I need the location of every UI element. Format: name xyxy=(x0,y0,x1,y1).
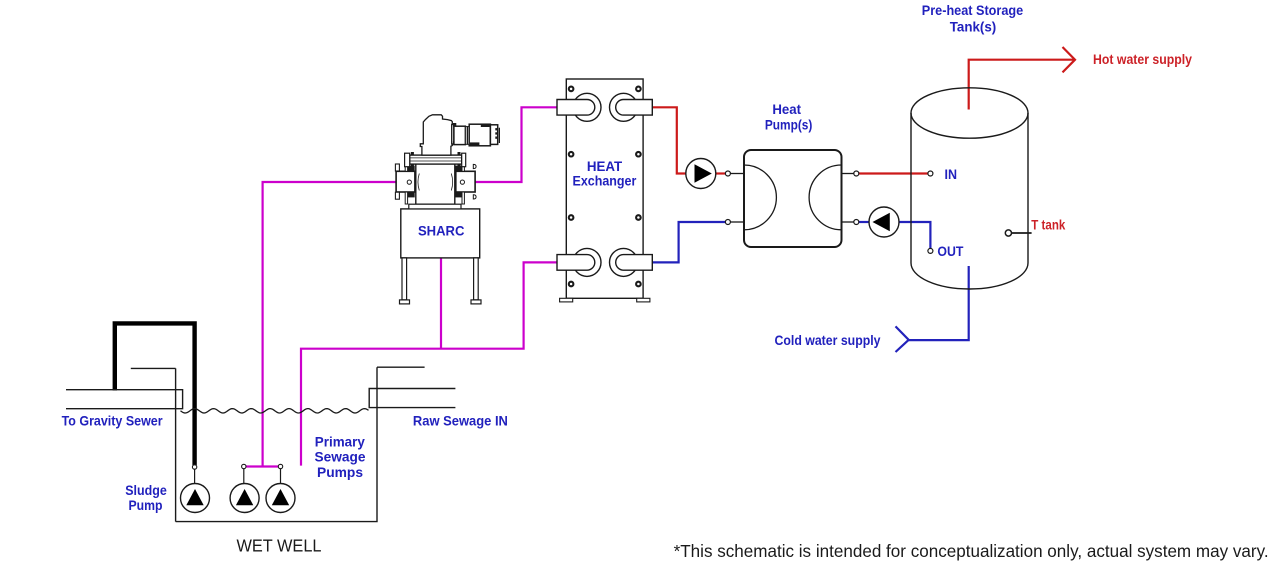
heat exchanger port top-left xyxy=(557,93,601,121)
wire: magenta primary pump header xyxy=(244,465,281,467)
label Sludge Pump xyxy=(125,482,167,513)
svg-text:HEAT: HEAT xyxy=(587,158,623,174)
node primary pump 1 xyxy=(242,464,246,468)
node T tank sensor xyxy=(1005,230,1031,236)
svg-text:SHARC: SHARC xyxy=(418,223,465,239)
svg-text:Pump: Pump xyxy=(129,497,163,513)
heat exchanger port top-right xyxy=(610,93,653,121)
wire: thick black sludge discharge to gravity sewer xyxy=(115,323,195,465)
svg-text:Pumps: Pumps xyxy=(317,464,363,480)
wire: magenta pipe SHARC left flange to primary sewage pumps xyxy=(263,182,398,467)
primary sewage pump PP1 xyxy=(230,484,259,513)
svg-text:Raw Sewage IN: Raw Sewage IN xyxy=(413,412,508,428)
wire: black stub heat pump left-top xyxy=(730,173,744,175)
circulation pump P2 xyxy=(869,207,899,237)
svg-text:To Gravity Sewer: To Gravity Sewer xyxy=(62,412,163,428)
wire: black stub heat pump right-bottom xyxy=(842,221,854,223)
wire: blue cold water supply into tank bottom xyxy=(909,266,969,340)
heat pump left coil arc xyxy=(744,165,776,230)
svg-text:T tank: T tank xyxy=(1031,217,1065,233)
svg-text:IN: IN xyxy=(945,166,958,182)
primary sewage pump PP2 xyxy=(266,484,295,513)
svg-text:Hot water supply: Hot water supply xyxy=(1093,51,1192,67)
node heat pump left-top xyxy=(725,171,730,176)
svg-text:WET WELL: WET WELL xyxy=(237,536,322,556)
SHARC motor xyxy=(452,123,500,146)
wire: magenta pipe SHARC right flange to heat exchanger top-left port xyxy=(475,107,557,182)
node heat pump right-bottom xyxy=(854,220,859,225)
svg-text:Sewage: Sewage xyxy=(315,449,366,465)
label HEAT Exchanger xyxy=(573,158,637,189)
svg-text:*This schematic is intended fo: *This schematic is intended for conceptu… xyxy=(674,541,1269,561)
svg-text:OUT: OUT xyxy=(937,243,963,259)
svg-text:Pre-heat Storage: Pre-heat Storage xyxy=(922,2,1024,18)
heat pump right coil arc xyxy=(809,165,841,230)
wire: black stub heat pump left-bottom xyxy=(730,221,744,223)
heat exchanger bolts xyxy=(569,87,641,287)
svg-text:Heat: Heat xyxy=(772,101,801,117)
wire primary pump 2 to node xyxy=(280,469,282,484)
SHARC pump housing xyxy=(420,115,452,155)
SHARC right flange box xyxy=(455,161,476,204)
label Heat Pump(s) xyxy=(765,101,813,132)
wire: red hot water supply from tank top with arrow xyxy=(969,60,1074,110)
sludge pump SP1 xyxy=(181,484,210,513)
SHARC vessel column xyxy=(409,164,461,209)
node heat pump right-top xyxy=(854,171,859,176)
label Pre-heat Storage Tank(s) xyxy=(922,2,1024,34)
wire: blue heat exchanger bottom-right port to heat pump left-bottom node xyxy=(649,222,725,262)
wire sludge pump to node xyxy=(194,469,196,483)
node primary pump 2 xyxy=(278,464,282,468)
svg-text:Sludge: Sludge xyxy=(125,482,167,498)
wire: magenta return pipe heat exchanger bottom-left port to wet well xyxy=(301,262,557,465)
node tank IN xyxy=(928,171,933,176)
wire: red heat exchanger top-right port to pump P1 xyxy=(652,107,686,173)
SHARC left flange box xyxy=(395,161,415,204)
node sludge pump discharge xyxy=(192,465,196,469)
svg-text:Tank(s): Tank(s) xyxy=(950,18,997,34)
wire: red pump P1 to heat pump left-top node xyxy=(716,172,726,174)
wire primary pump 1 to node xyxy=(243,469,245,484)
raw sewage pipe right xyxy=(369,367,455,407)
heat exchanger U1 body xyxy=(560,79,650,302)
SHARC stand box xyxy=(401,209,480,258)
svg-text:Pump(s): Pump(s) xyxy=(765,116,813,132)
svg-text:Cold water supply: Cold water supply xyxy=(775,332,881,348)
SHARC top flange plate xyxy=(405,152,466,167)
heat pump HP1 box xyxy=(744,150,842,247)
pre-heat storage tank body xyxy=(911,88,1028,289)
svg-text:Primary: Primary xyxy=(315,433,365,449)
gravity sewer pipe left xyxy=(66,368,183,408)
heat exchanger port bottom-left xyxy=(557,248,601,276)
cold water supply source chevron xyxy=(896,326,909,352)
wire: magenta SHARC drain to return pipe junction xyxy=(440,258,442,349)
wire: blue heat pump right-bottom node to pump P2 xyxy=(859,221,869,223)
wire: blue pump P2 into tank to OUT node xyxy=(899,222,931,248)
label Primary Sewage Pumps xyxy=(315,433,366,480)
circulation pump P1 xyxy=(686,159,716,189)
wire: red heat pump right-top node to tank IN xyxy=(859,172,928,174)
heat exchanger port bottom-right xyxy=(610,248,653,276)
SHARC stand legs xyxy=(400,258,482,304)
node heat pump left-bottom xyxy=(725,220,730,225)
svg-text:Exchanger: Exchanger xyxy=(573,173,637,189)
water surface wavy line xyxy=(181,409,369,413)
wet well left wall xyxy=(175,368,177,521)
node tank OUT xyxy=(928,248,933,253)
wet well bottom and right wall xyxy=(176,367,377,521)
wire: black stub heat pump right-top xyxy=(842,173,854,175)
